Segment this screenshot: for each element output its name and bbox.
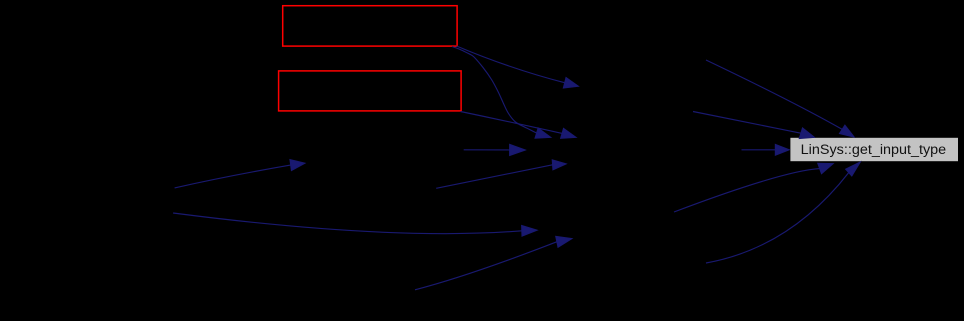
edge to get_input_type bottomleft bbox=[674, 163, 833, 212]
node LinSys::get_input_type (grey) bbox=[790, 138, 958, 161]
edge to node M2 horizontal bbox=[464, 144, 526, 155]
edge caller-left to node A bbox=[175, 160, 305, 188]
node box1 (red, truncated caller) bbox=[283, 6, 457, 46]
edge caller-left long curve to node B bbox=[173, 213, 537, 236]
edge bottom caller to node M5 bbox=[415, 236, 572, 289]
edge red box1 to node M1 bbox=[457, 46, 579, 88]
edge to get_input_type topleft bbox=[693, 112, 815, 139]
edge red box2 to node M3 bbox=[461, 112, 577, 139]
edge lower node to get_input_type bottom bbox=[706, 162, 861, 263]
edge red box1 S-curve to node M2 bbox=[452, 47, 551, 139]
edge to node M4 bbox=[436, 160, 566, 189]
node box2 (red, truncated caller) bbox=[279, 71, 462, 111]
svg-text:LinSys::get_input_type: LinSys::get_input_type bbox=[801, 142, 947, 158]
edge node M1 to get_input_type top bbox=[706, 60, 854, 137]
edge to get_input_type left bbox=[742, 144, 790, 155]
